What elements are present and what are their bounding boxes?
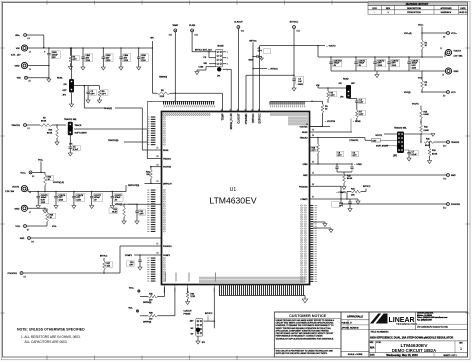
wire VOUT1 down	[420, 106, 422, 111]
svg-text:RUN1: RUN1	[163, 150, 169, 152]
svg-text:J3: J3	[442, 75, 444, 77]
capacitor COUT8 OPT	[73, 192, 75, 197]
U1 top-left pin cluster (VIN pins)	[148, 101, 215, 116]
U1 right pin VOUT2S	[310, 126, 331, 128]
turret J4 VIN	[21, 45, 27, 51]
wire PHASMD pin to JP6	[213, 293, 215, 328]
svg-text:INTVCC: INTVCC	[195, 50, 203, 52]
svg-text:JP2: JP2	[63, 95, 66, 97]
svg-text:TRACK2 SEL: TRACK2 SEL	[394, 127, 408, 130]
svg-text:VO1+: VO1+	[129, 288, 135, 290]
svg-text:VERIFY PROPER AND RELIABLE OPE: VERIFY PROPER AND RELIABLE OPERATION IN …	[276, 327, 331, 330]
svg-text:LINEAR TECHNOLOGY HAS MADE A B: LINEAR TECHNOLOGY HAS MADE A BEST EFFORT…	[276, 319, 335, 322]
svg-text:HIGH EFFICIENCY, DUAL 18A STE: HIGH EFFICIENCY, DUAL 18A STEP-DOWN µMOD…	[370, 336, 453, 340]
ground COUT bus	[376, 71, 378, 73]
title rows	[369, 330, 468, 358]
svg-text:VCO+: VCO+	[418, 25, 424, 27]
svg-text:VOUT1(1,3): VOUT1(1,3)	[53, 182, 64, 184]
svg-text:VOUT1: VOUT1	[375, 135, 383, 137]
capacitor COUT10 470uF 4V	[330, 57, 332, 62]
svg-text:80.6K: 80.6K	[347, 178, 353, 180]
svg-text:HOWEVER, IT REMAINS THE CUSTOM: HOWEVER, IT REMAINS THE CUSTOMER'S RESPO…	[276, 324, 334, 327]
svg-text:EXT_CLK: EXT_CLK	[203, 50, 213, 52]
wire GND J7	[28, 207, 45, 209]
svg-text:← VOUT2: ← VOUT2	[326, 46, 336, 48]
svg-text:TEMP(3): TEMP(3)	[159, 77, 167, 79]
svg-text:6.04K: 6.04K	[424, 130, 430, 132]
svg-text:LTM4630EV: LTM4630EV	[209, 196, 256, 206]
svg-text:JP3: JP3	[340, 97, 343, 99]
U1 top-right pin cluster (VOUT2 pins)	[270, 101, 313, 125]
wire RUN2 net	[348, 93, 350, 99]
svg-text:CIRCUIT THAT MEETS CUSTOMER-SU: CIRCUIT THAT MEETS CUSTOMER-SUPPLIED SPE…	[276, 322, 334, 325]
net tag VOUT2 arrow	[260, 45, 325, 47]
U1 right pin PGOOD2	[310, 185, 342, 187]
post E3 PGOOD1	[20, 272, 23, 275]
svg-text:E8: E8	[443, 37, 445, 39]
svg-text:TITLE: SCHEMATIC: TITLE: SCHEMATIC	[371, 331, 390, 334]
wire INTVCC vertical	[252, 42, 254, 111]
resistor R30 121K on PHASMD pin	[187, 291, 189, 293]
wire COMP2	[334, 198, 347, 200]
U1 right side ground stub wires	[313, 221, 325, 223]
U1 left pin cluster middle	[147, 189, 166, 232]
capacitor C7 0.1uF	[404, 149, 409, 151]
svg-text:D6: D6	[312, 135, 314, 137]
svg-text:DESCRIPTION: DESCRIPTION	[407, 8, 421, 10]
svg-text:E7: E7	[312, 197, 314, 199]
svg-text:JT: JT	[350, 322, 352, 324]
wire EXTVCC branch to pin	[246, 74, 294, 76]
svg-text:CIRCUIT BOARD LAYOUT MAY SIGNI: CIRCUIT BOARD LAYOUT MAY SIGNIFICANTLY A…	[276, 332, 335, 335]
wire JP2 to VIN bus	[71, 48, 73, 79]
svg-text:E6: E6	[32, 176, 34, 178]
svg-text:SIZE: SIZE	[370, 342, 374, 344]
svg-text:U1: U1	[230, 187, 237, 193]
ground JP6	[197, 334, 199, 339]
post E10 TRACK2	[447, 141, 450, 144]
svg-text:TECHNOLOGY APPLICATIONS ENGINE: TECHNOLOGY APPLICATIONS ENGINEERING FOR …	[276, 337, 335, 340]
resistor R6 OPT	[99, 86, 101, 90]
svg-text:PGOOD2: PGOOD2	[451, 204, 461, 206]
svg-text:SUPPLIED FOR USE WITH LINEAR T: SUPPLIED FOR USE WITH LINEAR TECHNOLOGY …	[276, 352, 328, 355]
turret GND J3 right	[445, 68, 451, 74]
svg-text:THIS CIRCUIT IS PROPRIETARY TO: THIS CIRCUIT IS PROPRIETARY TO LINEAR TE…	[276, 349, 334, 352]
svg-text:CLKOUT: CLKOUT	[234, 22, 243, 24]
post E12 PGOOD2	[447, 203, 450, 206]
wire PGOOD1	[23, 272, 120, 274]
resistor R18 OPT	[313, 147, 316, 149]
svg-text:EXTVCC: EXTVCC	[290, 22, 299, 24]
svg-text:INTVCC: INTVCC	[205, 313, 213, 315]
turret J6 VOUT1	[21, 186, 27, 192]
svg-text:EXTVCC: EXTVCC	[259, 113, 262, 123]
svg-text:DATE: DATE	[460, 7, 466, 10]
ground bus under U1	[219, 295, 305, 297]
U1 left pin VOUT1S	[150, 166, 162, 168]
svg-text:PCB DES.: PCB DES.	[342, 322, 350, 324]
wire VOUT2S to pin	[322, 119, 324, 127]
U1 right pin RUN2	[310, 131, 353, 133]
wire TRACK1 net to U1	[74, 128, 147, 130]
svg-text:DIFFN(3): DIFFN(3)	[143, 302, 152, 304]
wire VIN+ to bus	[27, 34, 44, 36]
svg-text:TP2: TP2	[443, 179, 446, 181]
svg-text:CLKOUT: CLKOUT	[237, 113, 240, 124]
svg-text:GND: GND	[454, 71, 459, 73]
resistor R10 80.6K	[56, 125, 58, 128]
svg-text:E10: E10	[443, 146, 446, 148]
resistor R3 on VOUT2S	[312, 100, 323, 102]
svg-text:121K: 121K	[190, 296, 195, 298]
svg-text:08-22-12: 08-22-12	[459, 12, 466, 14]
svg-text:DATE:: DATE:	[370, 354, 375, 357]
svg-text:Fax: (408)434-0507: Fax: (408)434-0507	[417, 319, 432, 322]
resistor R25 100	[138, 292, 140, 297]
capacitor C6 OPT	[351, 164, 353, 167]
svg-text:APPLICATION. COMPONENT SUBSTI: APPLICATION. COMPONENT SUBSTITUTION AND …	[276, 329, 330, 332]
svg-text:80.6K: 80.6K	[432, 154, 438, 156]
svg-text:TRACK1 SEL: TRACK1 SEL	[64, 118, 78, 121]
svg-text:1. ALL RESISTORS ARE IN OHMS,: 1. ALL RESISTORS ARE IN OHMS, 0603.	[21, 335, 81, 339]
post E7 VO1-	[24, 225, 27, 228]
svg-text:APPROVED: APPROVED	[440, 7, 452, 10]
svg-text:1: 1	[460, 347, 462, 351]
svg-text:COM: COM	[199, 67, 204, 69]
svg-text:DIFFP(3): DIFFP(3)	[143, 321, 152, 323]
svg-text:VIN-: VIN-	[17, 78, 22, 80]
svg-text:VIN: VIN	[150, 38, 154, 40]
svg-text:E1: E1	[28, 128, 30, 130]
capacitor CIN2	[82, 48, 84, 57]
resistor R16 6.04K	[420, 110, 423, 119]
svg-text:GND: GND	[15, 66, 20, 68]
U1 right pin SW2	[310, 174, 447, 176]
wire VOUT2 bus	[318, 56, 443, 58]
U1 left pin cluster upper (VIN side)	[147, 101, 166, 145]
capacitor C5 0.1uF	[69, 135, 71, 147]
component value label boxes	[40, 48, 420, 267]
U1 bottom inside rotated pin names	[165, 273, 216, 282]
svg-text:F8: F8	[312, 130, 314, 132]
svg-text:80.6K: 80.6K	[47, 133, 53, 135]
svg-text:100: 100	[146, 174, 149, 176]
svg-text:DIFFOUT: DIFFOUT	[163, 183, 172, 185]
svg-text:PHASMD: PHASMD	[245, 113, 248, 124]
svg-text:← VFB2: ← VFB2	[354, 164, 362, 166]
wire VCO+ divider	[421, 27, 423, 41]
svg-text:DIFFOUT(3): DIFFOUT(3)	[128, 185, 139, 187]
wires JP5 rows	[384, 133, 397, 135]
svg-text:E13: E13	[297, 31, 300, 33]
resistor R26 10	[44, 208, 46, 210]
wire COMP1	[134, 254, 146, 256]
svg-text:4.5V - 15V: 4.5V - 15V	[11, 55, 21, 57]
capacitor COUT1 470uF 4V	[355, 57, 357, 62]
wire JP2 middle pin right	[74, 85, 84, 87]
svg-text:RUN2: RUN2	[302, 132, 308, 134]
wire VIN to JP3	[318, 87, 328, 89]
svg-text:SOFT-START: SOFT-START	[376, 145, 389, 148]
svg-text:J5: J5	[29, 69, 31, 71]
wire VO1- to R26	[27, 225, 47, 227]
svg-text:JP6: JP6	[202, 342, 205, 344]
wire R8 to pin bus	[174, 93, 176, 101]
capacitor C3 OPT	[87, 86, 89, 93]
ground for MODE	[205, 67, 207, 70]
svg-text:VFB2: VFB2	[302, 164, 308, 166]
wire VFB1	[128, 203, 162, 205]
svg-text:VCO(3): VCO(3)	[404, 92, 411, 94]
turret VOUT2 J2	[444, 53, 446, 58]
svg-text:VO1-: VO1-	[15, 226, 20, 228]
svg-text:GND: GND	[15, 208, 20, 210]
svg-text:TEMP: TEMP	[221, 113, 224, 120]
svg-text:VCO+(3): VCO+(3)	[404, 33, 412, 35]
capacitor C13 OPT	[349, 199, 351, 202]
resistor R14 80.6K	[429, 142, 431, 148]
svg-text:INTVCC: INTVCC	[249, 41, 257, 43]
svg-text:APPROVALS: APPROVALS	[347, 314, 363, 318]
wire VIN bus	[28, 47, 152, 49]
resistor R15 80.6K	[424, 141, 434, 144]
svg-text:INTVCC: INTVCC	[363, 186, 371, 188]
svg-text:CLKOUT: CLKOUT	[184, 311, 193, 313]
svg-text:REV: REV	[386, 8, 391, 10]
wire CLKIN to MODE jumper	[191, 32, 193, 52]
svg-text:TRACK2: TRACK2	[451, 141, 460, 144]
U1 bottom pin comb to ground bus	[199, 277, 304, 296]
svg-text:PGOOD1: PGOOD1	[8, 273, 18, 275]
U1 left pin cluster lower	[147, 257, 166, 281]
svg-text:J7: J7	[29, 212, 31, 214]
svg-text:SW1: SW1	[20, 238, 26, 240]
svg-text:VOUT1: VOUT1	[412, 104, 420, 106]
svg-text:TP1: TP1	[31, 242, 34, 244]
resistor R4 OPT	[327, 87, 329, 89]
svg-text:RUN1: RUN1	[57, 78, 63, 80]
wire PGOOD2 to post	[341, 203, 446, 205]
capacitor C1 OPT 0603	[253, 55, 257, 57]
capacitor CIN3	[102, 48, 104, 57]
svg-text:CLKIN: CLKIN	[189, 25, 196, 27]
post TP2 SW2	[447, 174, 450, 177]
U1 left pin RUN1	[150, 149, 162, 151]
wire TEMP down	[174, 32, 176, 77]
svg-text:121K: 121K	[160, 96, 165, 98]
svg-text:E5: E5	[29, 81, 31, 83]
capacitor CIN5	[138, 48, 140, 57]
ground symbol on bus	[304, 296, 306, 300]
wire R9 to JP4	[52, 124, 66, 126]
resistor R23 VOUT1S to DIFFOUT	[150, 167, 152, 170]
svg-text:5: 5	[227, 64, 228, 66]
svg-text:E8: E8	[312, 184, 314, 186]
svg-text:TRACK1(3): TRACK1(3)	[108, 139, 119, 142]
svg-text:SOFT-START: SOFT-START	[75, 132, 88, 135]
svg-text:E5: E5	[157, 156, 159, 158]
capacitor COUT4 100uF 6.3V	[408, 57, 410, 62]
capacitor CIN4	[120, 48, 122, 57]
svg-text:← RUN2: ← RUN2	[353, 121, 362, 123]
svg-text:7: 7	[227, 69, 228, 71]
svg-text:80.6K: 80.6K	[41, 120, 47, 122]
revision history table	[368, 2, 468, 14]
svg-text:ECO: ECO	[373, 8, 378, 10]
turret J5 GND input	[21, 62, 27, 68]
resistor R1 10	[421, 40, 424, 49]
svg-text:E7: E7	[27, 230, 29, 232]
post E1 TRACK1	[24, 124, 27, 127]
post E5 VIN-	[25, 76, 28, 79]
post E9 VCO	[422, 91, 446, 93]
svg-text:VIN+: VIN+	[15, 35, 21, 37]
U1 left pin COMP1	[146, 254, 162, 256]
svg-text:IC NO.: IC NO.	[376, 342, 381, 344]
svg-text:VO1+: VO1+	[20, 172, 26, 174]
capacitor COUT5 100uF 6.3V	[37, 192, 39, 197]
svg-text:← VOUT2S: ← VOUT2S	[325, 121, 336, 123]
svg-text:COMP2: COMP2	[300, 199, 308, 201]
capacitor CIN1 150uF 25V	[48, 48, 50, 54]
Linear Technology logo	[369, 311, 468, 357]
svg-text:⟨ TRACK2: ⟨ TRACK2	[349, 139, 359, 142]
svg-text:← INTVCC: ← INTVCC	[268, 68, 279, 70]
resistor R5 OPT	[69, 48, 71, 56]
U1 left pin DIFFOUT	[145, 182, 162, 184]
wire RUN1 net to U1	[84, 85, 86, 87]
svg-text:TECHNOLOGY: TECHNOLOGY	[396, 322, 417, 326]
svg-text:RUN2: RUN2	[343, 79, 349, 81]
resistor R28 100	[148, 315, 157, 317]
svg-text:1.5V / 18A: 1.5V / 18A	[5, 190, 15, 193]
post E6 VO1+	[29, 171, 32, 174]
capacitor COUT6 OPT	[55, 192, 57, 197]
U1 right pin COMP2	[310, 198, 335, 200]
svg-text:E12: E12	[443, 208, 446, 210]
turret J7 GND output	[21, 205, 27, 211]
svg-text:3: 3	[227, 58, 228, 60]
capacitor COUT7 470uF 4V	[91, 192, 93, 197]
svg-text:HAZRAN M: HAZRAN M	[441, 11, 452, 14]
resistor R9 80.6K	[27, 124, 40, 126]
U1 top middle pins TEMP MODE_PLLIN CLKOUT PHASMD INTVCC EXTVCC	[221, 46, 262, 130]
wire COUT ground bus	[331, 70, 422, 72]
svg-text:MODE: MODE	[217, 46, 224, 48]
svg-text:J2: J2	[440, 48, 442, 50]
U1 right pin VFB2	[310, 163, 353, 165]
svg-text:TRACK1: TRACK1	[163, 158, 172, 161]
svg-text:F1: F1	[157, 244, 159, 246]
U1 left pin PGOOD1	[120, 245, 162, 247]
svg-text:1.0V / 18A: 1.0V / 18A	[454, 55, 464, 58]
svg-text:VFB1(3): VFB1(3)	[115, 204, 123, 206]
ground R13	[421, 133, 431, 135]
wire VOUT1 bus corner to DIFFOUT tag	[125, 185, 127, 192]
svg-text:TRACK2: TRACK2	[300, 137, 309, 140]
svg-text:J6: J6	[29, 192, 31, 194]
wire SW1 to U1	[31, 237, 162, 239]
capacitor C8 OPT	[336, 164, 338, 167]
svg-text:INTVCC: INTVCC	[100, 256, 108, 258]
wire VIN down to R8	[151, 48, 153, 93]
post E4 VIN+	[24, 34, 27, 37]
svg-text:PGOOD1: PGOOD1	[163, 246, 172, 248]
net tag INTVCC arrow	[253, 68, 267, 70]
svg-text:VCO+: VCO+	[451, 33, 458, 35]
svg-text:← COMP2: ← COMP2	[336, 192, 347, 194]
svg-text:VO1-: VO1-	[128, 308, 133, 310]
customer notice box	[274, 312, 341, 357]
U1 left pin TRACK1	[150, 158, 162, 160]
svg-text:VOUT2S: VOUT2S	[299, 127, 308, 129]
svg-text:PRODUCTION: PRODUCTION	[407, 12, 421, 14]
svg-text:VIN: VIN	[16, 48, 20, 50]
svg-text:120°: 120°	[190, 321, 194, 323]
capacitor C10 OPT	[138, 259, 141, 261]
wire VO1+ and R22	[32, 171, 41, 173]
post TP1 SW1	[28, 237, 31, 240]
svg-text:80.6K: 80.6K	[425, 145, 431, 147]
resistor R13 6.04K	[420, 121, 422, 123]
capacitor C2 1uF 0603	[293, 78, 295, 79]
svg-text:1: 1	[227, 52, 228, 54]
svg-text:F3: F3	[157, 181, 159, 183]
capacitor COUT2 OPT 1210	[374, 57, 376, 62]
svg-text:F5: F5	[157, 148, 159, 150]
wire CLKOUT down to U1	[237, 29, 239, 112]
svg-text:RUN1(3): RUN1(3)	[104, 108, 112, 110]
svg-text:VOUT1: VOUT1	[12, 187, 20, 189]
svg-text:PGOOD2: PGOOD2	[299, 186, 308, 188]
svg-text:E9: E9	[443, 96, 445, 98]
resistor R21 40.2K	[123, 207, 126, 217]
svg-text:E15: E15	[169, 35, 172, 37]
svg-text:LTC Confidential-For Customer: LTC Confidential-For Customer Use Only	[417, 325, 448, 328]
svg-text:ALL CAPACITORS ARE 0603.: ALL CAPACITORS ARE 0603.	[25, 340, 68, 344]
wire EXTVCC down	[293, 29, 295, 78]
post E8 VCO+	[422, 32, 446, 34]
svg-text:INTVCC: INTVCC	[252, 113, 255, 123]
U1 right pin TRACK2	[310, 137, 366, 139]
approvals box	[341, 312, 369, 357]
svg-text:D5: D5	[312, 162, 314, 164]
svg-text:E16: E16	[195, 35, 198, 37]
svg-text:Wednesday, May 15, 2013: Wednesday, May 15, 2013	[386, 353, 418, 357]
svg-text:COMP1: COMP1	[125, 255, 133, 257]
svg-text:N/A: N/A	[370, 345, 375, 349]
svg-text:PERFORMANCE OR RELIABILITY. C: PERFORMANCE OR RELIABILITY. CONTACT LINE…	[276, 335, 324, 338]
svg-text:COMP1: COMP1	[163, 255, 171, 257]
svg-text:VO1-: VO1-	[52, 226, 57, 228]
U1 bottom individual pins SGND VOUT1 PGND PHASMD labels	[164, 285, 215, 293]
svg-text:SHEET 1 OF 1: SHEET 1 OF 1	[443, 355, 457, 357]
svg-text:6.04K: 6.04K	[424, 114, 430, 116]
resistor R8 121K	[152, 92, 157, 94]
resistor R24 10K INTVCC	[351, 190, 361, 193]
capacitor C11 OPT	[135, 210, 138, 212]
svg-text:60°: 60°	[191, 334, 194, 336]
svg-text:TEMP: TEMP	[172, 25, 178, 27]
wires MODE jumper rows	[209, 57, 216, 59]
U1 right pin cluster lower	[300, 205, 317, 282]
svg-text:JP1: JP1	[217, 76, 220, 78]
wire VOUT1 bus	[27, 188, 29, 190]
capacitor C4 OPT	[350, 85, 352, 98]
resistor R22 10	[44, 172, 46, 174]
wire JP2 bottom to ground	[71, 93, 73, 104]
svg-text:E3: E3	[24, 277, 26, 279]
